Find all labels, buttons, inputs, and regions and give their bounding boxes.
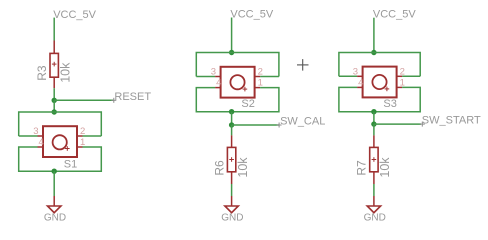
switch S1 (38, 126, 83, 157)
wire S2 bottom to SW_CAL node (231, 112, 233, 125)
svg-text:SW_CAL: SW_CAL (280, 115, 325, 127)
svg-text:2: 2 (400, 66, 405, 77)
svg-text:S1: S1 (64, 158, 77, 170)
svg-text:VCC_5V: VCC_5V (53, 9, 96, 21)
resistor R7 (370, 135, 378, 184)
junction S3 top (371, 50, 376, 55)
wire S3 bottom to SW_START node (373, 112, 375, 124)
junction S1 bottom (52, 169, 57, 174)
wire S2 top rail (196, 53, 279, 77)
svg-text:4: 4 (216, 78, 221, 89)
wire VCC_5V to R3 (53, 18, 55, 41)
svg-text:4: 4 (39, 137, 44, 148)
junction node RESET (52, 98, 57, 103)
wire S3 top rail (339, 53, 420, 77)
wire R3 to RESET node (53, 88, 55, 100)
ground GND (middle) (225, 196, 238, 213)
wire S3 bottom rail (339, 87, 420, 111)
plus annotation (297, 59, 309, 71)
svg-text:10k: 10k (236, 157, 250, 178)
svg-text:RESET: RESET (114, 91, 151, 103)
svg-text:10k: 10k (59, 62, 73, 83)
wire S1 to GND (53, 171, 55, 196)
junction S3 bottom (371, 109, 376, 114)
svg-text:SW_START: SW_START (422, 114, 481, 126)
svg-text:2: 2 (258, 67, 263, 78)
wire R7 to GND (373, 184, 375, 196)
resistor R1 (50, 41, 58, 89)
junction node SW_CAL (229, 122, 234, 127)
wire VCC_5V to S2 (231, 18, 233, 53)
svg-text:3: 3 (353, 66, 358, 77)
switch S2 (215, 67, 260, 98)
svg-text:VCC_5V: VCC_5V (230, 9, 273, 21)
svg-text:GND: GND (44, 212, 66, 223)
ground GND (left) (48, 196, 61, 213)
wire SW_CAL node to R6 (231, 125, 233, 135)
wire SW_CAL stub (232, 124, 279, 126)
wire R6 to GND (231, 184, 233, 196)
ground GND (right) (367, 196, 380, 213)
junction S1 top (52, 109, 57, 114)
svg-text:S3: S3 (383, 98, 396, 110)
net label SW_CAL anchor cross (277, 123, 282, 128)
switch S3 (357, 67, 402, 98)
junction node SW_START (371, 121, 376, 126)
svg-text:10k: 10k (378, 157, 392, 178)
net label RESET anchor cross (111, 98, 116, 103)
wire RESET stub (54, 99, 113, 101)
wire S2 bottom rail (196, 88, 279, 112)
wire SW_START stub (374, 123, 421, 125)
svg-text:GND: GND (221, 212, 243, 223)
wire SW_START node to R7 (373, 124, 375, 135)
svg-text:3: 3 (33, 126, 38, 137)
svg-text:S2: S2 (241, 98, 254, 110)
svg-text:GND: GND (364, 212, 386, 223)
wire VCC_5V to S3 (373, 18, 375, 53)
svg-text:4: 4 (358, 77, 363, 88)
svg-text:3: 3 (211, 67, 216, 78)
svg-text:VCC_5V: VCC_5V (373, 9, 416, 21)
junction S2 bottom (229, 109, 234, 114)
junction S2 top (229, 50, 234, 55)
svg-text:R3: R3 (35, 65, 49, 81)
wire S1 top rail (19, 112, 102, 136)
svg-text:R6: R6 (212, 160, 226, 176)
svg-text:R7: R7 (355, 160, 369, 176)
svg-text:2: 2 (80, 126, 85, 137)
wire S1 bottom rail (19, 147, 102, 171)
net label SW_START anchor cross (420, 122, 425, 127)
wire RESET node to S1 top (53, 100, 55, 112)
resistor R6 (227, 135, 235, 184)
